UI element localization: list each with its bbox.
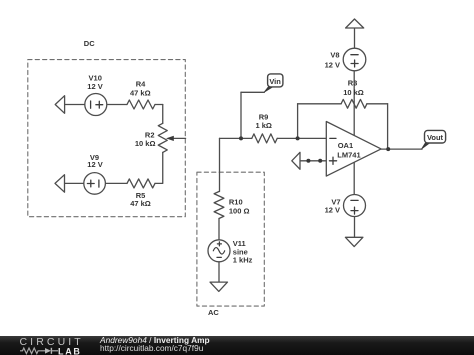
Vin flag body [268, 74, 283, 87]
wire R2 bottom to R5 corner [155, 152, 163, 183]
V11 minus sign [217, 256, 221, 258]
V10 plus sign [96, 101, 103, 108]
svg-text:100 Ω: 100 Ω [229, 206, 250, 215]
Vin flag pointer [264, 86, 274, 93]
wire V10 to R4 [107, 104, 127, 106]
junction at Vin node [239, 136, 243, 140]
V11 sine wave [213, 248, 224, 254]
V8 plus sign [351, 60, 358, 67]
junction at output node [386, 147, 390, 151]
V7 plus sign [351, 207, 358, 214]
ground symbol below V7 [345, 237, 363, 246]
DC group box [28, 60, 186, 217]
footer credit line [100, 336, 210, 344]
ground symbol at V9 [55, 175, 65, 193]
wire op-amp negative supply to V7 [353, 162, 355, 194]
V8 minus sign [351, 54, 358, 56]
svg-text:LAB: LAB [58, 346, 82, 355]
voltage source V9 body [84, 173, 106, 195]
Vout flag body [425, 130, 446, 143]
ground symbol at op-amp non-inverting input [292, 152, 300, 169]
V11 plus sign [217, 242, 221, 246]
V9 plus sign [87, 180, 94, 187]
ground symbol at V10 [55, 96, 64, 114]
svg-text:Vout: Vout [427, 133, 444, 142]
resistor R3 [341, 99, 367, 108]
wire R9 to op-amp inverting input [277, 137, 326, 139]
V7 minus sign [351, 199, 358, 201]
junction at inverting input node [296, 136, 300, 140]
wire node to R9 [220, 137, 252, 139]
svg-text:OA1: OA1 [338, 141, 353, 150]
wire Vin vertical [240, 92, 242, 138]
svg-text:1 kΩ: 1 kΩ [255, 121, 271, 130]
svg-text:12 V: 12 V [325, 61, 340, 70]
resistor R4 [127, 100, 155, 109]
CircuitLab logo wordmark [20, 337, 84, 348]
svg-text:47 kΩ: 47 kΩ [130, 88, 151, 97]
potentiometer R2 element [158, 123, 167, 152]
voltage source V7 body [344, 195, 366, 217]
footer url line [100, 344, 203, 352]
wire feedback left vertical [297, 104, 299, 139]
logo resistor zigzag [20, 348, 41, 354]
wire R2 wiper tap [172, 137, 186, 139]
svg-text:AC: AC [208, 308, 219, 317]
wire feedback right vertical [387, 104, 389, 149]
svg-text:12 V: 12 V [325, 206, 340, 215]
V9 minus sign [98, 180, 100, 187]
op-amp minus input sign [330, 137, 336, 139]
junction dot B on non-inverting wire [318, 159, 322, 163]
R2 wiper arrowhead [166, 136, 174, 141]
svg-text:LM741: LM741 [337, 150, 360, 159]
svg-text:12 V: 12 V [87, 160, 102, 169]
svg-text:12 V: 12 V [87, 82, 102, 91]
resistor R10 [214, 192, 224, 219]
wire feedback top left [298, 103, 342, 105]
op-amp OA1 body [326, 122, 381, 177]
wire V11 to ground [218, 262, 220, 282]
svg-text:1 kHz: 1 kHz [233, 255, 253, 264]
wire corner down to R2 [162, 105, 164, 124]
wire V7 to ground [354, 217, 356, 238]
resistor R5 [127, 179, 155, 188]
svg-text:47 kΩ: 47 kΩ [130, 199, 151, 208]
footer bar [0, 336, 474, 355]
wire non-inverting ground lead [300, 160, 326, 162]
sine source V11 body [208, 240, 230, 262]
AC group box [197, 172, 264, 306]
Vout flag pointer [421, 142, 430, 149]
wire R10 to V11 [218, 219, 220, 240]
wire V10 ground lead [65, 104, 85, 106]
logo diode [45, 348, 51, 354]
wire op-amp output [381, 148, 422, 150]
wire V8 to op-amp positive supply [353, 71, 355, 136]
CircuitLab logo symbol line [18, 346, 84, 355]
svg-text:R3: R3 [348, 78, 358, 87]
wire feedback top right [367, 103, 388, 105]
op-amp plus input sign [329, 157, 336, 164]
svg-text:V11: V11 [233, 239, 246, 248]
svg-text:DC: DC [84, 39, 95, 48]
wire V8 arrow lead [354, 28, 356, 48]
wire Vin flag horizontal [241, 91, 264, 93]
wire V9 ground lead [65, 182, 84, 184]
voltage source V8 body [343, 48, 366, 71]
svg-text:R4: R4 [136, 80, 146, 89]
power arrow above V8 [346, 19, 364, 28]
ground symbol below V11 [210, 282, 228, 291]
svg-text:10 kΩ: 10 kΩ [343, 88, 364, 97]
wire R4 to corner [155, 104, 163, 106]
wire V9 to R5 [105, 182, 127, 184]
svg-text:10 kΩ: 10 kΩ [135, 139, 156, 148]
resistor R9 [252, 134, 277, 143]
svg-text:Vin: Vin [269, 77, 281, 86]
svg-text:V8: V8 [330, 51, 339, 60]
V10 minus sign [90, 101, 92, 108]
junction dot A on non-inverting wire [306, 159, 310, 163]
voltage source V10 body [85, 94, 107, 116]
svg-text:R10: R10 [229, 198, 243, 207]
wire down to R10 [219, 138, 221, 191]
